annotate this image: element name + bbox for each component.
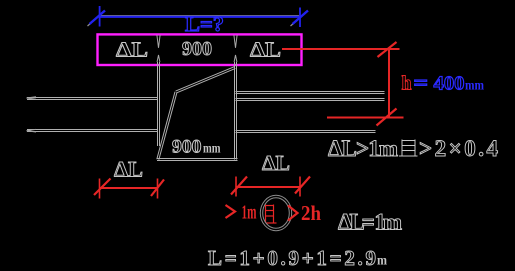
glyph qie (and) white — [399, 140, 418, 157]
svg-text:L=?: L=? — [185, 12, 224, 36]
red dimension deltaL left: line — [100, 187, 158, 189]
svg-text:900: 900 — [172, 137, 202, 158]
break shape bottom line — [157, 159, 238, 161]
red dimension deltaL right: line — [236, 186, 300, 188]
svg-text:=: = — [414, 73, 429, 95]
svg-text:ΔL>1m: ΔL>1m — [328, 136, 398, 161]
pipe right wall line 2 — [236, 99, 385, 101]
separator arrow down at x=158.5 — [157, 35, 160, 48]
red leader from delta-L to h dimension (top) — [282, 48, 400, 50]
svg-text:ΔL: ΔL — [262, 151, 290, 175]
svg-text:ΔL: ΔL — [116, 38, 148, 62]
dimension L tick left (blue) — [90, 11, 106, 25]
break shape shallow diagonal — [176, 67, 236, 93]
magenta highlight box — [98, 34, 302, 65]
separator arrow down at x=235.5 — [234, 35, 237, 48]
red dimension h bottom tick — [377, 109, 397, 126]
ellipse around qie — [262, 197, 291, 230]
dimension L line (blue) — [100, 16, 300, 18]
svg-text:ΔL: ΔL — [114, 157, 143, 182]
dimension L extension line right (blue) — [299, 8, 301, 28]
pipe right wall line 1 — [236, 92, 385, 94]
red note greater-than 2 — [288, 206, 298, 221]
pipe upper-left wall — [27, 97, 158, 100]
svg-text:ΔL= 1m: ΔL= 1m — [338, 210, 402, 235]
red dimension h top tick — [378, 42, 397, 57]
red dimension deltaL right: ticks — [231, 177, 310, 195]
dimension L ghost line (gray above blue) — [101, 15, 299, 17]
red dimension h vertical line — [388, 49, 390, 118]
svg-text:1m: 1m — [242, 202, 257, 224]
pipe right wall line 3 — [236, 131, 376, 133]
red dimension deltaL left: ticks — [94, 179, 164, 197]
svg-text:m: m — [377, 254, 387, 269]
break shape left vertical — [158, 62, 160, 146]
svg-text:900: 900 — [182, 38, 212, 60]
dimension L tick right (blue) — [293, 11, 309, 25]
svg-text:ΔL: ΔL — [250, 38, 281, 62]
svg-text:L=1+0.9+1=2.9: L=1+0.9+1=2.9 — [208, 246, 376, 270]
dimension L ghost tick left (gray) — [88, 13, 104, 27]
break shape right vertical — [235, 62, 237, 160]
glyph qie (and) red — [263, 205, 277, 224]
svg-text:2h: 2h — [301, 201, 321, 225]
svg-text:mm: mm — [465, 78, 485, 93]
svg-text:h: h — [402, 73, 412, 95]
red note greater-than 1 — [226, 205, 236, 218]
red leader bottom — [327, 117, 404, 119]
pipe lower-left wall — [27, 129, 158, 132]
svg-text:>2×0.4: >2×0.4 — [419, 136, 499, 161]
dimension L ghost tick right (gray) — [291, 13, 307, 27]
red dimension deltaL right: end verticals — [236, 177, 300, 197]
separator arrow up at x=158.5 — [157, 55, 160, 62]
separator arrow up at x=235.5 — [234, 55, 237, 62]
svg-text:400: 400 — [434, 73, 465, 95]
red dimension deltaL left: end verticals — [100, 179, 158, 199]
svg-text:mm: mm — [203, 141, 221, 156]
break shape steep diagonal — [157, 92, 177, 160]
dimension L extension line left (blue) — [99, 6, 101, 27]
